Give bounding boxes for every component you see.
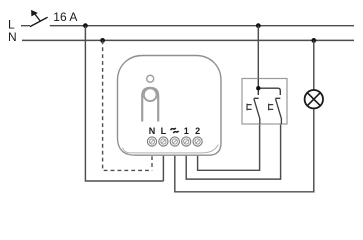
node junction dot L-to-switch bbox=[256, 23, 261, 28]
wire switch feed inside box bbox=[258, 79, 280, 96]
wire terminal L drop bbox=[162, 156, 164, 181]
wire terminal 1 to switch S2 bbox=[186, 124, 280, 179]
wire L bus to switch box bbox=[257, 26, 259, 79]
terminal screw L bbox=[159, 137, 168, 146]
module icon small hole bbox=[147, 75, 154, 82]
module icon staple bbox=[142, 88, 158, 122]
switch box bbox=[242, 79, 287, 125]
wire L bus bbox=[21, 25, 354, 27]
node junction dot L-to-device bbox=[83, 23, 88, 28]
terminal screw ~ bbox=[170, 137, 179, 146]
terminal screw N bbox=[147, 137, 156, 146]
svg-text:16 A: 16 A bbox=[53, 10, 77, 24]
module bottom seam line bbox=[123, 145, 219, 153]
svg-text:2: 2 bbox=[195, 126, 200, 136]
switch S1 blade bbox=[254, 98, 260, 124]
node junction dot N-to-lamp bbox=[311, 38, 316, 43]
wire N dashed feed left of module bbox=[103, 40, 152, 170]
wire terminal N dashed drop bbox=[151, 156, 153, 170]
node switch feed dot bbox=[256, 86, 260, 90]
terminal screw 2 bbox=[193, 137, 202, 146]
circuit breaker actuator arrow bbox=[31, 10, 38, 17]
module icon head circle bbox=[144, 88, 157, 101]
svg-text:N: N bbox=[149, 126, 156, 136]
svg-text:L: L bbox=[161, 126, 167, 136]
wire N bus bbox=[22, 39, 354, 41]
wire N bus to lamp bbox=[313, 40, 315, 90]
relay module U1 body bbox=[118, 56, 222, 156]
circuit breaker 16A blade bbox=[30, 17, 48, 26]
switch S1 pushbutton fork bbox=[247, 104, 252, 111]
terminal screw 1 bbox=[182, 137, 191, 146]
wire terminal ~ to lamp bbox=[175, 109, 314, 192]
wire terminal 2 to switch S1 bbox=[198, 124, 260, 170]
svg-text:1: 1 bbox=[184, 126, 189, 136]
svg-text:N: N bbox=[8, 30, 17, 44]
terminal label ~ (AC load) bbox=[171, 128, 179, 133]
wire L feed down-left of module bbox=[85, 26, 163, 181]
node junction dot N-to-device (dashed) bbox=[100, 38, 105, 43]
lamp E1 bbox=[305, 90, 323, 108]
switch S2 blade bbox=[275, 98, 281, 124]
switch S2 pushbutton fork bbox=[269, 104, 274, 111]
